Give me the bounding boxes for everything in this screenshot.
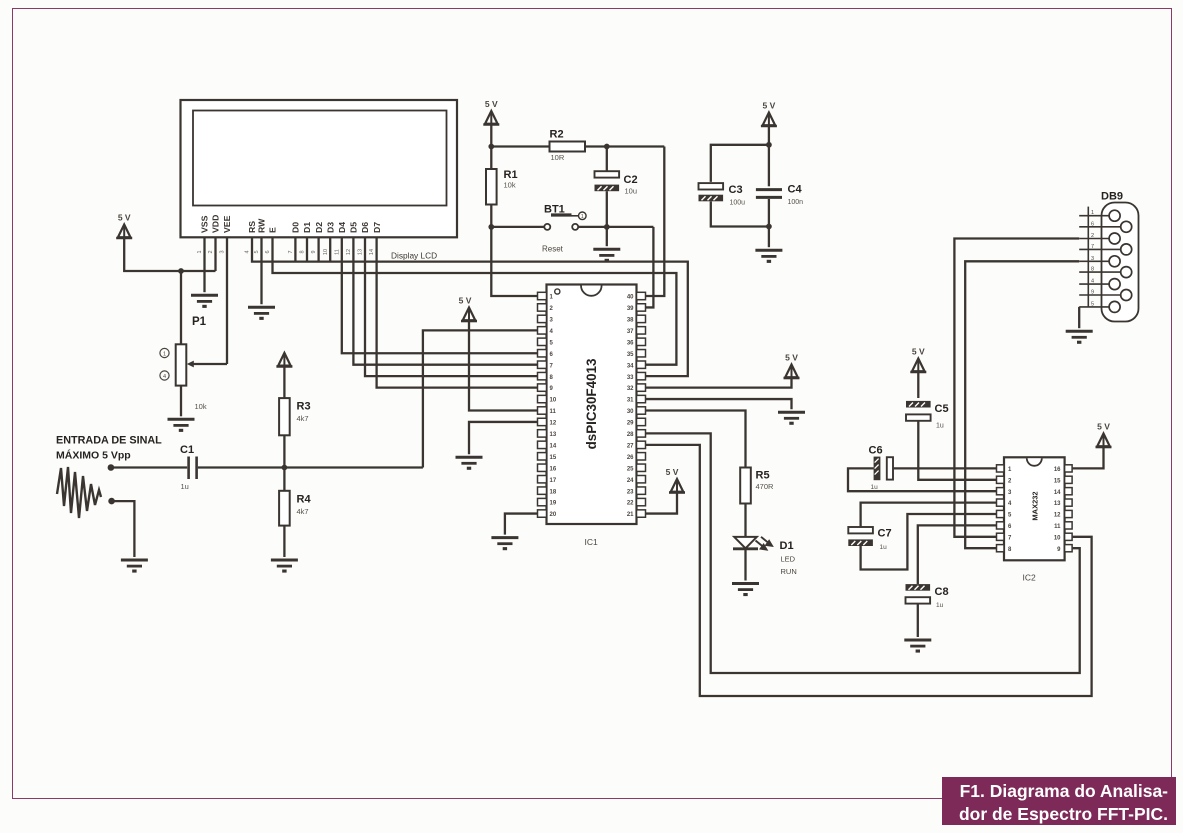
IC1 pin 23 [637, 487, 646, 494]
wire LCD D5 to IC1 pin7 [353, 237, 537, 364]
IC1 pin 4 [538, 327, 547, 334]
capacitor C4 plates [756, 188, 782, 191]
svg-text:5 V: 5 V [763, 101, 776, 111]
P1 wiper arrow [187, 361, 194, 368]
IC2 pin 14 [1065, 488, 1073, 495]
IC1 pin 27 [637, 441, 646, 448]
wire IC1 pin21 to 5V [646, 493, 678, 514]
svg-text:10u: 10u [625, 187, 638, 196]
svg-text:2: 2 [208, 250, 214, 253]
svg-text:13: 13 [550, 432, 557, 438]
wire BT1 node to IC1 pin1 [491, 227, 537, 296]
IC1 pin 19 [538, 498, 547, 505]
wire P1 bottom to ground [180, 386, 182, 417]
svg-text:dsPIC30F4013: dsPIC30F4013 [584, 359, 599, 450]
svg-text:1u: 1u [936, 423, 944, 430]
resistor R2 [550, 142, 586, 152]
wire LCD D7 to IC1 pin9 [377, 237, 538, 387]
svg-text:4: 4 [163, 374, 166, 380]
ground (D1) [732, 584, 759, 597]
IC2 pin 1 [997, 465, 1005, 472]
svg-text:30: 30 [627, 409, 634, 415]
svg-text:VDD: VDD [211, 215, 221, 233]
svg-text:R1: R1 [504, 169, 518, 181]
IC1 pin 14 [538, 441, 547, 448]
5V supply (IC1 pin21) [666, 467, 685, 494]
svg-text:100u: 100u [730, 200, 746, 207]
svg-text:17: 17 [550, 478, 557, 484]
5V supply (IC2 pin16) [1096, 422, 1112, 449]
wire 5V to R1/R2 node [490, 125, 492, 147]
svg-text:2: 2 [1091, 233, 1094, 239]
wire DB9 pin2 to IC2 pin7 [954, 239, 1079, 537]
svg-text:10: 10 [550, 398, 557, 404]
IC1 pin 22 [637, 498, 646, 505]
ground (IC1 pin20) [491, 538, 518, 551]
input terminal + [108, 464, 115, 471]
wire LCD VDD stub [214, 237, 216, 271]
caption box [942, 777, 1176, 826]
ground (R4) [271, 560, 298, 573]
wire to IC1 pin40 [646, 147, 665, 297]
IC1 pin 8 [538, 372, 547, 379]
svg-text:MÁXIMO 5 Vpp: MÁXIMO 5 Vpp [56, 449, 131, 462]
svg-text:1: 1 [581, 214, 584, 220]
capacitor C3 top plate [699, 183, 724, 189]
wire IC1 pin30 to R5 [646, 411, 746, 468]
IC2 MAX232 body [1004, 457, 1065, 560]
IC2 pin 10 [1065, 533, 1073, 540]
node R2/C2 [604, 144, 610, 150]
svg-text:R3: R3 [297, 401, 311, 413]
resistor R3 [279, 398, 290, 435]
resistor R4 [279, 491, 290, 526]
svg-text:VEE: VEE [222, 215, 232, 233]
node 5V/C3 [766, 142, 772, 148]
wire 5V node to P1 top [180, 271, 182, 344]
IC2 pin 2 [997, 476, 1005, 483]
IC1 pin 31 [637, 395, 646, 402]
svg-text:29: 29 [627, 421, 634, 427]
IC1 notch [581, 286, 602, 296]
wire LCD D3 stub (n.c.) [329, 237, 331, 261]
svg-text:12: 12 [550, 421, 557, 427]
IC1 pin 33 [637, 372, 646, 379]
wire R5 to D1 [744, 504, 746, 538]
ground (C3/C4) [755, 250, 782, 263]
svg-text:28: 28 [627, 432, 634, 438]
wire 5V to R3 [283, 366, 285, 398]
ground (IC1 pin12) [456, 457, 483, 470]
svg-text:13: 13 [1054, 501, 1061, 507]
svg-text:1u: 1u [871, 484, 879, 491]
svg-text:DB9: DB9 [1101, 191, 1123, 203]
svg-text:IC1: IC1 [585, 537, 599, 547]
svg-text:16: 16 [1054, 467, 1061, 473]
svg-text:C7: C7 [878, 528, 892, 540]
svg-text:C5: C5 [935, 403, 949, 415]
5V supply (IC1 pin32) [784, 353, 800, 380]
svg-text:39: 39 [627, 306, 634, 312]
svg-text:8: 8 [300, 250, 306, 253]
wire 5V to LCD VDD [124, 238, 215, 271]
svg-text:26: 26 [627, 455, 634, 461]
IC1 pin 24 [637, 476, 646, 483]
svg-text:VSS: VSS [200, 215, 210, 233]
capacitor C5 bottom plate [906, 414, 931, 420]
node R1/BT1 [488, 224, 494, 230]
wire BT1 right [578, 226, 653, 228]
svg-text:35: 35 [627, 352, 634, 358]
wire C5 to IC2 pin2 [918, 421, 996, 480]
LED D1 [734, 537, 757, 548]
wire LCD RW to ground [260, 237, 262, 304]
svg-text:C4: C4 [788, 184, 803, 196]
IC2 pin 4 [997, 499, 1005, 506]
IC1 pin 2 [538, 304, 547, 311]
svg-text:D1: D1 [780, 540, 794, 552]
P1 terminal circle 1 [160, 348, 169, 357]
IC1 pin 16 [538, 464, 547, 471]
svg-text:14: 14 [550, 443, 557, 449]
5V supply (LCD) [116, 213, 132, 240]
svg-text:D4: D4 [337, 222, 347, 233]
input terminal - [108, 498, 115, 505]
svg-text:4k7: 4k7 [297, 414, 309, 423]
svg-text:10k: 10k [504, 181, 516, 190]
wire node to R4 top [283, 468, 285, 491]
IC1 pin 28 [637, 430, 646, 437]
IC1 pin 10 [538, 395, 547, 402]
wire IC2 pin6 to C8 top [918, 525, 997, 584]
5V supply (IC1 pin11) [459, 296, 477, 323]
capacitor C2 top plate [595, 171, 620, 177]
DB9 pin 1 [1079, 215, 1109, 217]
svg-text:16: 16 [550, 466, 557, 472]
svg-text:BT1: BT1 [544, 204, 565, 216]
capacitor C7 bottom plate (hatched) [848, 539, 873, 546]
wire node to R1 top [490, 147, 492, 170]
wire node to R2 left [491, 145, 549, 147]
svg-text:5 V: 5 V [912, 347, 925, 357]
wire P1 wiper to LCD VEE [193, 363, 228, 365]
wire R2 right to pin40 drop [585, 145, 664, 147]
IC2 notch [1027, 458, 1042, 466]
IC2 pin 16 [1065, 465, 1073, 472]
capacitor C6 left plate (hatched) [874, 457, 881, 481]
IC1 pin 7 [538, 361, 547, 368]
IC1 pin 11 [538, 407, 547, 414]
pushbutton BT1 actuator [551, 213, 572, 216]
IC1 pin 5 [538, 338, 547, 345]
IC1 pin 35 [637, 350, 646, 357]
svg-text:5 V: 5 V [459, 296, 472, 306]
svg-text:34: 34 [627, 363, 634, 369]
svg-text:C1: C1 [180, 444, 194, 456]
svg-text:21: 21 [627, 512, 634, 518]
svg-text:1: 1 [197, 250, 203, 253]
svg-text:10k: 10k [195, 402, 207, 411]
svg-text:1u: 1u [936, 602, 944, 609]
wire IC1 pin12 to ground [469, 422, 538, 454]
wire node to C2 top [606, 147, 608, 172]
IC1 pin 3 [538, 315, 547, 322]
wire signal to IC1 pin4 [423, 330, 538, 467]
wire LCD D0 stub (n.c.) [294, 237, 296, 261]
svg-text:1: 1 [1091, 210, 1094, 216]
IC1 pin 39 [637, 304, 646, 311]
svg-text:40: 40 [627, 295, 634, 301]
svg-text:4: 4 [245, 250, 251, 253]
wire LCD E to IC1 pin34 [273, 237, 677, 364]
svg-text:20: 20 [550, 512, 557, 518]
svg-text:Reset: Reset [542, 245, 564, 254]
ground (DB9 pin5) [1066, 331, 1093, 344]
svg-text:22: 22 [627, 501, 634, 507]
wire C6 left plate to IC2 pin3 [848, 468, 997, 491]
svg-text:5 V: 5 V [485, 99, 498, 109]
svg-text:24: 24 [627, 478, 634, 484]
DB9 pin 2 [1079, 238, 1109, 240]
IC1 pin 37 [637, 327, 646, 334]
svg-text:RW: RW [257, 218, 267, 233]
capacitor C3 bottom plate (hatched) [699, 195, 724, 202]
wire R3 bottom to node [283, 435, 285, 467]
DB9 pin 6 [1079, 226, 1121, 228]
IC2 pin 3 [997, 488, 1005, 495]
wire R1 bottom to BT1 node [490, 205, 492, 227]
IC1 pin 12 [538, 418, 547, 425]
wire LCD VSS to ground [203, 237, 205, 292]
svg-text:10: 10 [323, 249, 329, 255]
wire LCD D2 stub (n.c.) [317, 237, 319, 261]
svg-text:14: 14 [1054, 490, 1061, 496]
svg-text:38: 38 [627, 318, 634, 324]
DB9 shell [1102, 203, 1139, 322]
svg-text:10: 10 [1054, 535, 1061, 541]
wire C4 bottom to ground [768, 199, 770, 247]
IC1 dsPIC30F4013 body [547, 285, 637, 525]
wire input return to ground [112, 501, 135, 557]
ground (C2) [593, 249, 620, 262]
IC1 pin 30 [637, 407, 646, 414]
svg-text:D5: D5 [349, 222, 359, 233]
svg-text:5 V: 5 V [118, 213, 131, 223]
svg-text:MAX232: MAX232 [1031, 491, 1040, 520]
IC2 pin 9 [1065, 545, 1073, 552]
svg-text:14: 14 [369, 249, 375, 255]
svg-text:9: 9 [1091, 290, 1094, 296]
svg-text:6: 6 [265, 250, 271, 253]
svg-text:LED: LED [781, 555, 796, 564]
IC1 pin 17 [538, 476, 547, 483]
wire LCD RS to IC1 pin33 [252, 237, 688, 376]
DB9 pin 5 [1079, 306, 1109, 308]
IC2 pin 15 [1065, 476, 1073, 483]
IC1 pin 18 [538, 487, 547, 494]
wire IC2 pin4 to C7 top [861, 503, 997, 527]
LED D1 light arrows [756, 537, 773, 550]
svg-text:C2: C2 [624, 174, 638, 186]
ground (C8) [904, 640, 931, 653]
svg-text:D2: D2 [314, 222, 324, 233]
svg-text:D0: D0 [291, 222, 301, 233]
svg-text:3: 3 [220, 250, 226, 253]
svg-text:9: 9 [311, 250, 317, 253]
svg-text:R2: R2 [550, 129, 564, 141]
ground (input) [121, 560, 148, 573]
wire C6 right plate to IC2 pin1 [893, 467, 997, 469]
capacitor C5 top plate (hatched) [906, 401, 931, 408]
svg-text:5 V: 5 V [785, 353, 798, 363]
svg-text:19: 19 [550, 501, 557, 507]
wire BT1 left [491, 226, 544, 228]
wire LCD VEE stub [226, 237, 228, 364]
svg-text:ENTRADA DE SINAL: ENTRADA DE SINAL [56, 435, 162, 447]
wire 5V to C4 top [768, 126, 770, 186]
svg-text:C8: C8 [935, 586, 949, 598]
svg-text:7: 7 [288, 250, 294, 253]
svg-text:R5: R5 [756, 470, 770, 482]
wire IC2 pin16 to 5V [1073, 447, 1104, 468]
svg-text:1u: 1u [880, 544, 888, 551]
wire IC1 pin32 to 5V [646, 378, 792, 388]
DB9 pin 3 [1079, 260, 1109, 262]
svg-text:RUN: RUN [781, 567, 797, 576]
svg-text:7: 7 [1091, 244, 1094, 250]
wire D1 to ground [744, 549, 746, 581]
svg-text:R4: R4 [297, 494, 312, 506]
node C3/C4 ground side [766, 224, 772, 230]
svg-text:11: 11 [334, 249, 340, 255]
svg-text:15: 15 [550, 455, 557, 461]
svg-text:18: 18 [550, 489, 557, 495]
wire C8 bottom to ground [917, 604, 919, 637]
5V supply (C5) [910, 347, 926, 374]
svg-text:5 V: 5 V [666, 467, 679, 477]
IC2 pin 7 [997, 533, 1005, 540]
svg-text:32: 32 [627, 386, 634, 392]
svg-text:1u: 1u [181, 482, 189, 491]
DB9 pin 7 [1079, 248, 1121, 250]
wire C7 bottom to IC2 pin5 [861, 514, 997, 570]
IC1 pin 26 [637, 453, 646, 460]
wire IC1 pin27 to IC2 pin10 [646, 445, 1092, 696]
svg-text:P1: P1 [192, 316, 207, 328]
DB9 pin 8 [1079, 271, 1121, 273]
IC1 pin 38 [637, 315, 646, 322]
svg-text:5: 5 [254, 250, 260, 253]
DB9 pin 4 [1079, 283, 1109, 285]
svg-text:5: 5 [1091, 301, 1094, 307]
wire IC1 pin20 to ground [505, 514, 538, 535]
node C2/BT1 [604, 224, 610, 230]
IC1 pin 34 [637, 361, 646, 368]
svg-text:470R: 470R [756, 482, 775, 491]
node R3/R4 [282, 465, 288, 471]
5V supply (R3) [276, 353, 292, 368]
ground (LCD VSS) [191, 295, 218, 308]
IC2 pin 5 [997, 510, 1005, 517]
capacitor C2 bottom plate (hatched) [595, 185, 620, 192]
IC1 pin 20 [538, 510, 547, 517]
wire 5V to C5 [917, 372, 919, 398]
signal source waveform [57, 467, 101, 518]
IC1 pin 1 [538, 292, 547, 299]
svg-text:12: 12 [346, 249, 352, 255]
svg-text:E: E [268, 227, 278, 233]
wire IC1 pin28 to IC2 pin9 [646, 433, 1080, 673]
svg-text:33: 33 [627, 375, 634, 381]
ground (P1) [168, 419, 195, 432]
wire C1 to R3/R4 node and pin4 drop [198, 466, 423, 468]
wire C2 bottom to ground [606, 191, 608, 246]
svg-text:36: 36 [627, 340, 634, 346]
ground (IC1 pin31) [778, 412, 805, 425]
IC1 pin 15 [538, 453, 547, 460]
svg-text:4: 4 [1091, 279, 1094, 285]
wire R4 bottom to ground [283, 526, 285, 557]
5V supply (C3/C4) [761, 101, 777, 128]
wire DB9 pin3 to IC2 pin8 [965, 261, 1079, 548]
svg-text:27: 27 [627, 443, 634, 449]
svg-text:RS: RS [247, 221, 257, 233]
wire C3 bottom to ground node [711, 201, 769, 226]
IC2 pin 12 [1065, 510, 1073, 517]
capacitor C8 bottom plate [906, 597, 931, 603]
wire IC1 pin31 to ground [646, 399, 792, 409]
wire DB9 pin5 to ground [1078, 307, 1080, 328]
IC1 pin 6 [538, 350, 547, 357]
svg-text:10R: 10R [551, 153, 565, 162]
DB9 pin 9 [1079, 294, 1121, 296]
svg-text:31: 31 [627, 398, 634, 404]
resistor R1 [486, 169, 497, 205]
IC1 pin 21 [637, 510, 646, 517]
svg-text:37: 37 [627, 329, 634, 335]
svg-text:13: 13 [358, 249, 364, 255]
LCD module LCD1 outer box [181, 100, 458, 237]
svg-text:100n: 100n [788, 199, 804, 206]
capacitor C7 top plate [848, 527, 873, 533]
capacitor C8 top plate (hatched) [906, 584, 931, 591]
svg-text:3: 3 [1091, 256, 1094, 262]
pushbutton BT1 contacts [544, 224, 550, 230]
svg-text:6: 6 [1091, 221, 1094, 227]
potentiometer P1 body [176, 344, 187, 385]
wire input to C1 [111, 466, 187, 468]
wire LCD D1 stub (n.c.) [306, 237, 308, 261]
IC2 pin 6 [997, 522, 1005, 529]
svg-text:25: 25 [627, 466, 634, 472]
ground (LCD RW) [248, 307, 275, 320]
resistor R5 [740, 468, 751, 504]
svg-text:15: 15 [1054, 478, 1061, 484]
IC1 pin 9 [538, 384, 547, 391]
svg-text:23: 23 [627, 489, 634, 495]
svg-text:D1: D1 [302, 222, 312, 233]
svg-text:C3: C3 [729, 184, 743, 196]
IC1 pin 25 [637, 464, 646, 471]
svg-text:Display LCD: Display LCD [391, 251, 437, 261]
wire IC1 pin11 to 5V [469, 321, 538, 411]
capacitor C6 right plate [887, 457, 893, 479]
svg-text:8: 8 [1091, 267, 1094, 273]
wire BT1 to IC1 pin39 [646, 227, 654, 308]
wire node to C3 top [711, 145, 769, 182]
svg-text:D3: D3 [325, 222, 335, 233]
IC2 pin 8 [997, 545, 1005, 552]
